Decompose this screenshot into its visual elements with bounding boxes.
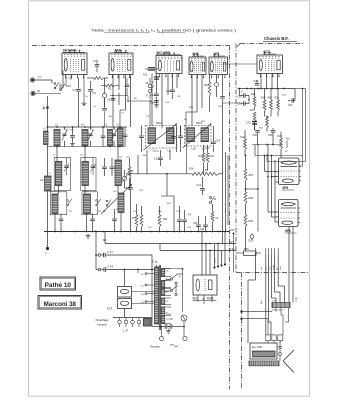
capacitor C15c dark xyxy=(154,76,159,78)
wire 6K7 pin verticals xyxy=(65,75,67,87)
transformer taps xyxy=(165,268,171,270)
svg-text:750: 750 xyxy=(166,271,169,273)
svg-text:6F6: 6F6 xyxy=(283,186,289,190)
capacitor C35 xyxy=(271,130,276,132)
svg-text:R9: R9 xyxy=(178,96,182,98)
wire to P2 xyxy=(126,173,192,175)
svg-text:A: A xyxy=(43,106,46,110)
svg-text:Mas.: Mas. xyxy=(261,299,263,304)
svg-text:C9: C9 xyxy=(146,116,150,118)
switch I-ant xyxy=(54,83,56,85)
primary tap S1 xyxy=(145,273,147,275)
coil L3 xyxy=(54,130,60,147)
bus 6v xyxy=(160,249,236,251)
svg-text:C 27: C 27 xyxy=(107,250,113,254)
svg-text:R6: R6 xyxy=(134,98,138,100)
resistor R1 xyxy=(94,77,104,80)
svg-text:R26: R26 xyxy=(249,220,254,223)
wire 5Y3 plate xyxy=(124,270,126,287)
switch I-earth xyxy=(60,85,62,87)
svg-text:C1: C1 xyxy=(73,88,77,92)
capacitor C27 xyxy=(96,254,98,256)
potentiometer P3 xyxy=(135,215,138,227)
coil L5 xyxy=(108,130,113,147)
transformer sec 1 xyxy=(161,269,164,277)
coil L11 xyxy=(115,160,121,186)
svg-text:R14: R14 xyxy=(189,168,194,171)
wire to grid xyxy=(62,71,64,89)
svg-text:L2: L2 xyxy=(43,128,46,130)
svg-text:+HT: +HT xyxy=(230,228,235,232)
svg-text:R16: R16 xyxy=(251,93,256,96)
wire cross 2 xyxy=(223,102,242,104)
svg-text:Nota : Inverseurs I₁ I₂ I₃ I₄: Nota : Inverseurs I₁ I₂ I₃ I₄ I₅ positio… xyxy=(92,29,236,33)
svg-text:pl: pl xyxy=(241,91,243,93)
svg-text:5Y3: 5Y3 xyxy=(107,307,113,311)
group box row2a xyxy=(54,158,70,191)
svg-text:6,3: 6,3 xyxy=(166,301,169,303)
wire right v2 xyxy=(305,89,307,162)
wire 6F6 grid top xyxy=(302,156,304,167)
svg-text:R25: R25 xyxy=(249,174,254,177)
svg-text:6F5: 6F5 xyxy=(214,52,220,56)
antenna terminal xyxy=(31,79,34,82)
selector switch 2 xyxy=(170,289,172,291)
wire between cans xyxy=(176,126,178,152)
capacitor C25 xyxy=(196,224,201,226)
primary tap S3 xyxy=(145,293,147,295)
wire fuse down xyxy=(183,321,185,336)
resistor R21 xyxy=(277,100,280,111)
svg-text:5v: 5v xyxy=(166,312,168,314)
svg-text:F1: F1 xyxy=(216,217,220,220)
svg-text:R22: R22 xyxy=(282,95,287,97)
svg-text:R35: R35 xyxy=(244,248,249,251)
svg-text:C30: C30 xyxy=(237,96,242,99)
capacitor C31 xyxy=(243,101,245,106)
capacitor Cx xyxy=(125,84,130,86)
svg-text:rouge: rouge xyxy=(296,296,298,302)
svg-text:C20: C20 xyxy=(124,187,129,190)
svg-text:C35: C35 xyxy=(268,134,273,137)
speaker magnet bar xyxy=(249,361,279,366)
svg-text:bleu: bleu xyxy=(280,266,282,270)
capacitor C21 xyxy=(200,188,205,190)
svg-text:lampes: lampes xyxy=(98,323,108,327)
svg-text:L4: L4 xyxy=(81,124,84,127)
node A xyxy=(46,106,49,109)
label Marconi 38 box xyxy=(38,296,82,310)
resistor R11 xyxy=(158,215,161,227)
svg-text:Marconi 38: Marconi 38 xyxy=(44,301,77,308)
wire 6F6 plates xyxy=(288,227,290,303)
svg-text:I7: I7 xyxy=(146,95,149,98)
svg-text:vert: vert xyxy=(260,266,263,270)
svg-text:C15: C15 xyxy=(154,158,159,161)
svg-text:R19: R19 xyxy=(261,97,266,100)
heater terminal 2 xyxy=(124,320,128,324)
coil input L1 xyxy=(44,131,49,145)
ground symbol bus xyxy=(87,234,89,236)
coil L4 xyxy=(82,130,88,147)
wire spk 2 xyxy=(265,255,267,335)
tube 6E5 xyxy=(193,275,217,295)
wire x152 xyxy=(151,255,153,270)
fuse xyxy=(181,315,187,321)
resistor R19 xyxy=(263,100,266,111)
transformer core xyxy=(158,265,160,330)
tube 6F6 no2 xyxy=(279,200,299,227)
svg-text:R11: R11 xyxy=(158,211,163,213)
capacitor C23 xyxy=(220,96,225,98)
svg-text:R11: R11 xyxy=(163,218,168,221)
svg-text:6K7 (MF): 6K7 (MF) xyxy=(157,51,171,55)
connector strip xyxy=(266,335,270,341)
svg-text:L2: L2 xyxy=(40,178,43,182)
svg-text:noir: noir xyxy=(269,266,271,270)
svg-text:6K7 (HF): 6K7 (HF) xyxy=(63,49,77,53)
capacitor C24 xyxy=(211,141,216,143)
wire x174 xyxy=(173,196,175,232)
capacitor C17 xyxy=(178,135,183,137)
wire 6E5 bottom xyxy=(197,295,199,302)
wire spk 6 xyxy=(277,255,279,286)
wire spk 1 xyxy=(255,253,257,280)
wire 6C5 pins xyxy=(260,74,262,89)
svg-text:C21: C21 xyxy=(197,184,202,187)
capacitor C29a xyxy=(164,324,166,329)
resistor R35 box xyxy=(244,251,257,256)
capacitor C26 xyxy=(203,224,208,226)
group box row2b xyxy=(81,158,96,191)
selector switch 1 xyxy=(170,278,172,280)
svg-text:C5: C5 xyxy=(121,113,125,115)
svg-text:T10: T10 xyxy=(286,138,291,141)
svg-text:P3: P3 xyxy=(133,211,136,213)
svg-text:C7: C7 xyxy=(93,59,97,63)
svg-text:R16: R16 xyxy=(199,155,204,158)
svg-text:T.T.: T.T. xyxy=(38,76,42,80)
wire 6F5 to 6C5 grid xyxy=(223,63,258,65)
svg-text:Chauffage: Chauffage xyxy=(96,318,109,322)
svg-text:C 29: C 29 xyxy=(167,317,173,321)
coil L9 xyxy=(82,162,88,186)
wire B+ 3 xyxy=(227,155,229,225)
svg-text:R15: R15 xyxy=(201,121,206,123)
resistor R17 xyxy=(208,82,211,96)
wire P2 right xyxy=(219,173,223,175)
svg-text:C22: C22 xyxy=(176,211,181,213)
svg-text:6F6: 6F6 xyxy=(285,229,291,233)
wire 5Y3 heater xyxy=(124,309,126,318)
svg-text:Chassis B.F.: Chassis B.F. xyxy=(264,36,289,41)
svg-text:6,3v: 6,3v xyxy=(230,247,236,251)
svg-text:C23: C23 xyxy=(218,106,223,108)
capacitor C2a xyxy=(102,166,107,168)
transformer sec 4 xyxy=(161,298,164,305)
wire earth xyxy=(35,93,61,95)
svg-text:6H8: 6H8 xyxy=(193,52,199,56)
svg-text:R28: R28 xyxy=(249,197,254,200)
capacitor C8 xyxy=(59,218,64,220)
svg-text:I1: I1 xyxy=(70,210,73,213)
speaker cone xyxy=(284,350,295,361)
svg-text:L9: L9 xyxy=(80,155,83,157)
coil L14 xyxy=(118,193,124,213)
wire row1-row2 links xyxy=(56,147,58,162)
wire HT taps xyxy=(240,310,242,312)
resistor R3 xyxy=(128,167,131,178)
trimmer C13 xyxy=(122,176,126,180)
trimmer C10 xyxy=(88,133,92,135)
svg-text:R13: R13 xyxy=(143,74,148,77)
wire bar down xyxy=(275,308,277,312)
speaker box xyxy=(250,343,277,359)
svg-text:L.P.: L.P. xyxy=(124,329,129,333)
capacitor Cq xyxy=(102,108,107,110)
resistor R2 xyxy=(106,84,115,87)
capacitor C12 xyxy=(123,134,128,136)
transformer sec 2 xyxy=(161,281,164,288)
capacitor C3 xyxy=(88,89,93,91)
tuning gang diagonal xyxy=(101,184,132,214)
wire top net xyxy=(238,88,296,90)
capacitor C2b xyxy=(110,166,115,168)
tube 6A8 xyxy=(109,53,133,75)
heater terminal 1 xyxy=(118,320,122,324)
wire B+ 1 xyxy=(222,110,224,244)
svg-text:T: T xyxy=(45,252,47,256)
capacitor C33 xyxy=(294,89,296,101)
svg-text:C26: C26 xyxy=(193,222,198,225)
switch I3 xyxy=(106,200,108,202)
terminal T xyxy=(47,232,49,248)
ground C29 xyxy=(168,329,170,331)
capacitor CA2 xyxy=(252,121,257,123)
trimmer C19 xyxy=(215,83,219,87)
resistor R16b xyxy=(253,97,256,107)
svg-text:C3: C3 xyxy=(93,91,97,95)
wire 6H8 pins xyxy=(191,75,193,127)
resistor R20 xyxy=(270,100,273,111)
chassis boundary speaker vertical xyxy=(241,273,243,389)
svg-text:p: p xyxy=(153,82,155,84)
capacitor C36 xyxy=(255,130,260,132)
switch I2 xyxy=(96,200,98,202)
speaker field coil xyxy=(253,351,276,357)
capacitor C17i xyxy=(171,136,176,138)
svg-text:R8: R8 xyxy=(143,155,147,157)
resistor R28 xyxy=(244,192,247,204)
wire 6F6 inputs xyxy=(264,156,266,172)
wire right step xyxy=(255,155,303,157)
svg-text:R21: R21 xyxy=(275,97,280,100)
wire A down xyxy=(47,96,49,232)
wire osc step xyxy=(110,95,128,97)
svg-text:Tch: Tch xyxy=(148,227,152,229)
wire selector xyxy=(165,279,171,281)
IF transformer MF1 xyxy=(146,126,177,149)
svg-text:C31: C31 xyxy=(237,103,242,106)
capacitor C22 xyxy=(177,219,182,221)
wire spk 5 xyxy=(274,255,276,292)
resistor R23 xyxy=(266,117,269,128)
ground bus xyxy=(44,231,230,233)
mains terminal 1 xyxy=(159,336,163,340)
tube 6K7 MF xyxy=(156,56,182,74)
chassis boundary BF bottom xyxy=(236,272,309,274)
capacitor C7 xyxy=(95,64,100,66)
chassis boundary BF top xyxy=(240,43,303,45)
svg-text:L6: L6 xyxy=(117,124,120,127)
svg-text:C36: C36 xyxy=(253,134,258,137)
svg-text:Bt: Bt xyxy=(38,89,41,93)
bus HT2 xyxy=(105,243,236,245)
wire right step2 xyxy=(266,154,268,162)
svg-text:I2: I2 xyxy=(99,210,102,213)
wire x147 xyxy=(146,150,148,174)
svg-text:EM1: EM1 xyxy=(207,297,214,301)
svg-text:C14: C14 xyxy=(150,93,155,97)
label Pathe 10 box xyxy=(40,277,76,290)
svg-text:L2: L2 xyxy=(49,173,52,175)
coil L13 xyxy=(84,194,91,214)
wire x258 xyxy=(257,145,259,232)
svg-text:C11: C11 xyxy=(112,128,117,130)
primary tap S4 xyxy=(145,301,147,303)
svg-text:F: F xyxy=(179,275,181,279)
svg-text:69: 69 xyxy=(146,83,149,85)
heater terminal 4 xyxy=(137,320,141,324)
wire x96 xyxy=(95,232,97,270)
wire spk 3 xyxy=(267,255,269,322)
wire net bottom xyxy=(252,144,281,146)
svg-text:R2: R2 xyxy=(108,88,112,91)
IF transformer MF2 xyxy=(185,126,212,147)
wire row1 top xyxy=(48,126,128,128)
trimmer C7b xyxy=(91,165,96,167)
resistor F1 xyxy=(211,212,214,222)
wire spk top stubs xyxy=(255,248,257,255)
wire B+ 2 xyxy=(225,152,227,232)
resistor R25 xyxy=(244,169,247,181)
svg-text:CPa: CPa xyxy=(70,130,75,132)
svg-text:L5: L5 xyxy=(105,124,108,127)
capacitor C29b xyxy=(169,324,171,329)
switch I5b xyxy=(148,84,151,87)
heater dark block xyxy=(144,319,152,327)
svg-text:S1: S1 xyxy=(141,274,144,276)
svg-text:Tg: Tg xyxy=(85,96,88,98)
svg-text:I6: I6 xyxy=(214,198,217,201)
mains line xyxy=(152,326,165,328)
tube 6K7 HF xyxy=(62,53,87,75)
wire r25 jumper xyxy=(246,188,259,190)
capacitor C15b xyxy=(158,157,163,159)
connector pins xyxy=(214,244,216,267)
wire primary top xyxy=(156,265,158,267)
svg-text:R5: R5 xyxy=(109,116,113,118)
svg-text:MOH: MOH xyxy=(215,258,217,263)
potentiometer P2 xyxy=(192,172,219,175)
svg-text:L14: L14 xyxy=(113,191,117,193)
svg-text:C2: C2 xyxy=(68,78,72,80)
svg-text:R24: R24 xyxy=(278,135,283,138)
svg-text:R17: R17 xyxy=(250,109,255,112)
coil L2 xyxy=(45,176,52,191)
wire 6A8 pins xyxy=(112,75,114,128)
svg-text:C6: C6 xyxy=(126,157,130,159)
capacitor C20 xyxy=(128,187,133,189)
svg-text:R17: R17 xyxy=(204,84,209,87)
svg-text:R23: R23 xyxy=(259,128,264,130)
svg-text:P2: P2 xyxy=(205,169,209,172)
tube 6H8 xyxy=(189,57,206,75)
wire x138 xyxy=(137,155,139,174)
svg-text:L3: L3 xyxy=(55,124,58,127)
group box row3a xyxy=(50,192,67,215)
capacitor C11a xyxy=(101,135,106,137)
svg-text:C4: C4 xyxy=(93,106,97,108)
ground g1 xyxy=(83,101,85,103)
speaker voice coil parts xyxy=(278,346,282,348)
svg-text:Pathé 10: Pathé 10 xyxy=(45,282,72,289)
svg-text:Exc. 1800: Exc. 1800 xyxy=(252,347,263,349)
capacitor C6 xyxy=(111,98,116,100)
wire row1 bottom xyxy=(48,146,126,148)
coil L5b xyxy=(118,128,124,146)
svg-text:L11: L11 xyxy=(119,157,123,159)
wire row3 verticals xyxy=(58,186,60,195)
trimmer C11 xyxy=(112,133,116,135)
svg-text:C 34: C 34 xyxy=(107,264,113,268)
heater line xyxy=(113,317,152,319)
wire antenna xyxy=(35,79,53,81)
capacitor C30 xyxy=(243,93,245,98)
resistor R12 xyxy=(166,174,168,196)
resistor R26 xyxy=(244,215,247,227)
wire spk 4 xyxy=(270,255,272,298)
svg-text:C30: C30 xyxy=(139,190,144,192)
svg-text:R12: R12 xyxy=(167,203,172,205)
svg-text:C10: C10 xyxy=(88,128,93,130)
svg-text:C25: C25 xyxy=(200,228,205,231)
wire mains vertical xyxy=(151,270,153,327)
resistor R24 xyxy=(280,138,283,149)
svg-text:MF1: MF1 xyxy=(156,121,162,125)
svg-text:Secteur: Secteur xyxy=(150,345,160,349)
tube 6C5 xyxy=(257,55,283,74)
svg-text:R7: R7 xyxy=(184,119,188,121)
switch I1 xyxy=(67,200,69,202)
capacitor C14 xyxy=(154,93,159,95)
capacitor C1 xyxy=(76,89,81,91)
capacitor CPa xyxy=(70,135,75,137)
earth terminal Bt xyxy=(32,92,35,95)
wire strip down xyxy=(267,341,269,343)
transformer primary xyxy=(155,267,159,324)
tube 6F6 no1 xyxy=(279,158,300,185)
transformer sec 5 xyxy=(161,307,164,314)
svg-text:L7: L7 xyxy=(53,155,56,157)
potentiometer P6 xyxy=(102,93,106,97)
svg-text:R20: R20 xyxy=(268,97,273,100)
wire C1 down xyxy=(90,97,92,127)
svg-text:C32: C32 xyxy=(254,80,259,83)
svg-text:R18: R18 xyxy=(210,155,215,158)
svg-text:P1: P1 xyxy=(188,214,192,217)
capacitor C22b xyxy=(182,219,187,221)
